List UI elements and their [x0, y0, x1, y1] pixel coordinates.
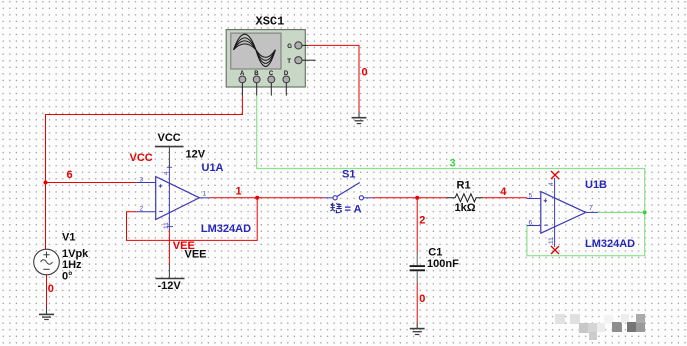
svg-text:1kΩ: 1kΩ — [455, 202, 476, 214]
svg-text:100nF: 100nF — [427, 258, 459, 270]
svg-text:3: 3 — [140, 177, 144, 184]
svg-text:C1: C1 — [428, 247, 442, 259]
svg-text:12V: 12V — [186, 148, 206, 160]
wire node1 to switch S1 — [257, 197, 323, 199]
svg-text:1: 1 — [236, 185, 242, 197]
svg-text:S1: S1 — [342, 169, 355, 181]
svg-text:LM324AD: LM324AD — [201, 223, 251, 235]
pin stub scope C — [270, 83, 272, 96]
wire node2 to R1 — [417, 197, 446, 199]
wire R1 to U1B + input (net 4) — [483, 197, 527, 199]
svg-text:LM324AD: LM324AD — [585, 238, 635, 250]
svg-text:VEE: VEE — [173, 240, 195, 252]
pin stub scope A — [241, 83, 243, 96]
svg-text:R1: R1 — [457, 180, 471, 192]
VCC power symbol — [155, 147, 184, 167]
junction green net — [643, 210, 647, 214]
svg-text:3: 3 — [450, 158, 456, 170]
svg-text:1: 1 — [203, 191, 207, 198]
switch S1 — [324, 183, 373, 200]
svg-text:V1: V1 — [62, 232, 75, 244]
svg-text:2: 2 — [140, 206, 144, 213]
svg-text:11: 11 — [163, 222, 170, 229]
op-amp U1A — [136, 167, 210, 230]
capacitor C1 — [410, 252, 425, 283]
svg-text:4: 4 — [163, 171, 170, 175]
svg-text:U1A: U1A — [202, 162, 224, 174]
wire scope G to ground (net 0) — [308, 45, 359, 112]
svg-text:6: 6 — [67, 169, 73, 181]
svg-text:-12V: -12V — [158, 280, 182, 292]
wire scope B down-right to U1B (green, net 3) — [257, 96, 645, 256]
op-amp U1B — [527, 178, 598, 247]
svg-text:G: G — [287, 44, 292, 50]
svg-text:U1B: U1B — [585, 179, 607, 191]
wire feedback U1A output to - input — [127, 198, 258, 241]
svg-text:= A: = A — [345, 204, 362, 216]
svg-text:XSC1: XSC1 — [256, 15, 285, 29]
pin stub scope B — [256, 83, 258, 96]
svg-text:VCC: VCC — [130, 152, 153, 164]
ground (scope) — [352, 112, 367, 124]
unconnected pin marker X (U1B pin 11) — [551, 246, 559, 254]
wire node2 down to C1 — [416, 198, 418, 252]
unconnected pin marker X (U1B pin 4) — [551, 171, 559, 179]
pin stub scope G — [302, 44, 308, 46]
svg-text:5: 5 — [529, 193, 533, 200]
svg-text:7: 7 — [589, 205, 593, 212]
pin stub scope T — [302, 59, 316, 61]
svg-text:0: 0 — [48, 283, 54, 295]
svg-text:4: 4 — [548, 182, 555, 186]
wire U1A pin11 to VEE — [168, 230, 170, 264]
svg-text:1Vpk: 1Vpk — [62, 248, 89, 260]
wire node 6 to U1A + input — [46, 182, 137, 184]
svg-text:6: 6 — [529, 220, 533, 227]
ground (V1) — [39, 307, 54, 320]
source V1 — [34, 249, 60, 275]
svg-text:VCC: VCC — [158, 132, 181, 144]
junction node 6 — [44, 181, 48, 185]
junction node 2 — [415, 196, 419, 200]
watermark blur — [555, 314, 645, 340]
junction node 1 — [255, 196, 259, 200]
wire U1B output to green net junction — [598, 211, 645, 213]
ground (C1) — [410, 322, 425, 334]
svg-text:T: T — [287, 59, 291, 65]
svg-text:1Hz: 1Hz — [62, 259, 82, 271]
wire scope A down-left to V1/node6 (red) — [46, 96, 243, 250]
svg-text:0°: 0° — [62, 270, 73, 282]
resistor R1 — [447, 194, 484, 202]
wire U1A output (net 1) — [210, 197, 257, 199]
svg-text:0: 0 — [362, 67, 368, 79]
VEE power symbol — [156, 264, 185, 279]
oscilloscope XSC1 — [226, 30, 305, 87]
label key = A — [330, 203, 342, 213]
pin stub scope D — [285, 83, 287, 96]
wire V1 bottom to ground (net 0) — [46, 275, 48, 307]
svg-text:11: 11 — [548, 237, 555, 244]
svg-text:0: 0 — [419, 293, 425, 305]
wire S1 to node 2 junction — [373, 197, 418, 199]
svg-text:4: 4 — [500, 186, 507, 198]
wire C1 to ground (net 0) — [416, 283, 418, 323]
svg-text:2: 2 — [419, 214, 425, 226]
